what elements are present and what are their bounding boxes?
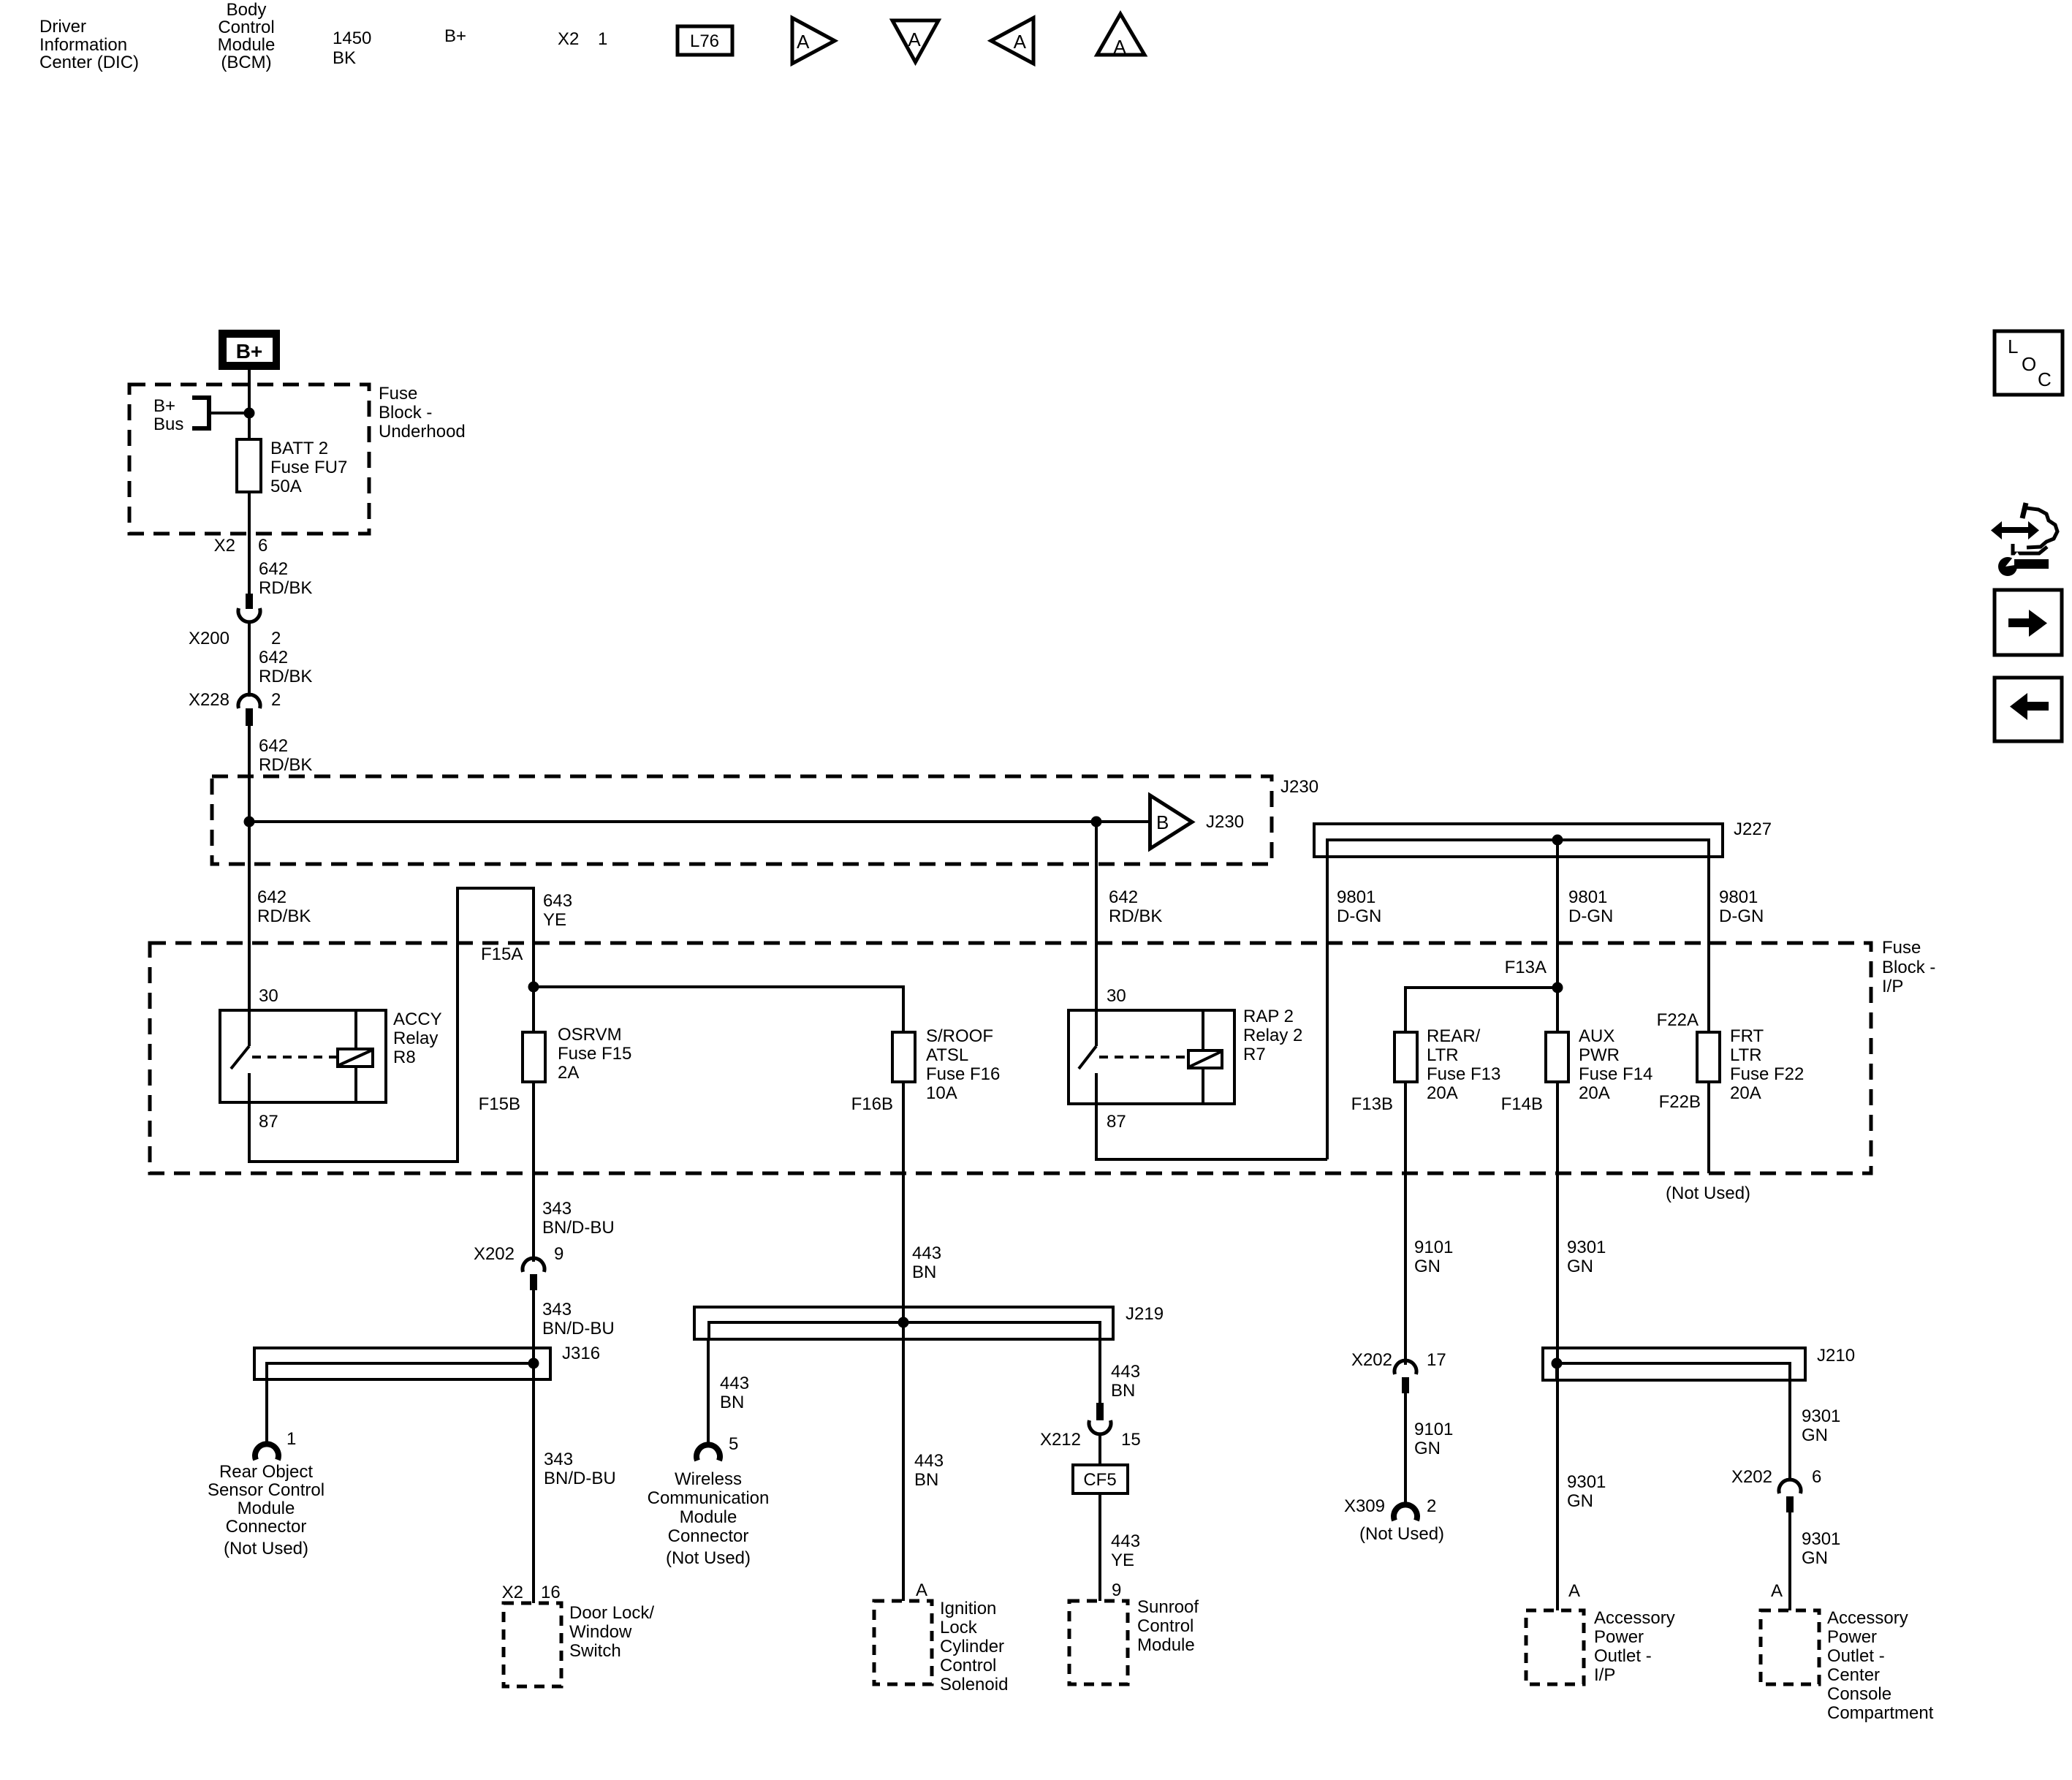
power symbol B+ — [219, 330, 280, 370]
svg-text:16: 16 — [541, 1583, 561, 1602]
label: Wireless Communication Module Connector (Not Used) — [648, 1469, 770, 1568]
legend arrow box right — [1995, 590, 2062, 655]
label: wire 9801 D-GN middle — [1568, 887, 1613, 926]
label: wire 642 RD/BK right — [1109, 887, 1162, 926]
wire F13B down 9101 GN — [1404, 1082, 1407, 1365]
wire relay R8 pin 87 to fuse F15 (643 YE) — [249, 888, 534, 1162]
svg-text:I/P: I/P — [1594, 1665, 1615, 1685]
fuse F14 AUX PWR 20A — [1546, 1032, 1568, 1082]
svg-text:X202: X202 — [1731, 1467, 1772, 1487]
svg-text:OSRVM: OSRVM — [558, 1025, 622, 1045]
svg-text:(Not Used): (Not Used) — [1666, 1183, 1750, 1203]
svg-text:9301: 9301 — [1802, 1406, 1840, 1426]
svg-text:Sunroof: Sunroof — [1137, 1597, 1199, 1617]
svg-text:9301: 9301 — [1567, 1238, 1606, 1257]
svg-text:642: 642 — [259, 559, 288, 579]
svg-text:GN: GN — [1414, 1257, 1441, 1276]
label: wire 443 BN above J219 — [912, 1243, 941, 1282]
legend arrow box left — [1995, 678, 2062, 741]
wire J210 right leg 9301 GN — [1788, 1380, 1791, 1480]
svg-text:Switch: Switch — [569, 1641, 621, 1661]
svg-text:Driver: Driver — [39, 17, 86, 37]
svg-text:J219: J219 — [1126, 1304, 1164, 1324]
wire F22B stub not used — [1707, 1082, 1710, 1173]
svg-text:Information: Information — [39, 35, 127, 55]
label: wire 9101 GN below X202-17 — [1414, 1420, 1453, 1458]
svg-text:Fuse: Fuse — [1882, 938, 1921, 958]
fuse F15 OSRVM 2A — [523, 1032, 545, 1082]
svg-text:RD/BK: RD/BK — [259, 667, 312, 686]
label: Fuse Block - I/P — [1882, 938, 1935, 996]
svg-text:Console: Console — [1827, 1684, 1891, 1704]
label: wire 343 BN/D-BU above X202 — [542, 1199, 615, 1238]
label: wire 642 RD/BK left — [257, 887, 311, 926]
svg-text:Lock: Lock — [940, 1618, 978, 1637]
svg-text:BN: BN — [914, 1470, 938, 1490]
fuse F22 FRT LTR 20A — [1697, 1032, 1720, 1082]
label: BATT 2 Fuse FU7 50A — [270, 439, 347, 496]
svg-text:Fuse F14: Fuse F14 — [1579, 1064, 1652, 1084]
svg-text:F13A: F13A — [1505, 958, 1547, 977]
svg-text:ATSL: ATSL — [926, 1045, 968, 1065]
junction node F15A — [528, 982, 539, 993]
svg-text:Rear Object: Rear Object — [219, 1462, 313, 1482]
svg-text:9: 9 — [1112, 1580, 1121, 1600]
label: wire 443 YE — [1111, 1531, 1140, 1570]
wire B+ to fuse FU7 — [248, 370, 251, 594]
svg-text:A: A — [908, 29, 921, 50]
svg-text:9801: 9801 — [1568, 887, 1607, 907]
svg-text:Module: Module — [680, 1507, 737, 1527]
connector X309 pin 2 (not used) — [1394, 1504, 1417, 1520]
label: wire 343 BN/D-BU below J316 — [544, 1450, 616, 1488]
svg-text:X202: X202 — [474, 1244, 515, 1264]
svg-text:Connector: Connector — [668, 1526, 749, 1546]
svg-text:J230: J230 — [1206, 812, 1244, 832]
label: wire 9801 D-GN right — [1719, 887, 1764, 926]
label: FRT LTR Fuse F22 20A — [1730, 1026, 1804, 1103]
wire J227 left leg from RAP relay output — [1326, 857, 1329, 1159]
label: wire 9301 GN above J210 — [1567, 1238, 1606, 1276]
svg-text:642: 642 — [1109, 887, 1138, 907]
wire relay R7 pin 87 to J227 — [1096, 1104, 1327, 1159]
LOC legend box — [1995, 331, 2062, 395]
svg-text:642: 642 — [257, 887, 286, 907]
svg-text:9101: 9101 — [1414, 1420, 1453, 1439]
wire X202-6 to outlet console 9301 GN — [1788, 1512, 1791, 1610]
svg-text:LTR: LTR — [1730, 1045, 1762, 1065]
inline connector X228 pin 2 — [238, 694, 260, 726]
Fuse Block - I/P dashed box — [150, 943, 1871, 1173]
svg-text:6: 6 — [258, 536, 267, 556]
label: wire 443 BN middle leg — [914, 1451, 944, 1490]
wire F14B down 9301 GN to J210 and outlet — [1556, 1082, 1559, 1610]
label: wire 642 RD/BK — [259, 559, 312, 598]
svg-text:9101: 9101 — [1414, 1238, 1453, 1257]
svg-text:1: 1 — [598, 29, 607, 49]
splice J230 dashed box — [212, 776, 1318, 864]
svg-text:GN: GN — [1802, 1425, 1828, 1445]
svg-text:Wireless: Wireless — [675, 1469, 742, 1489]
svg-text:GN: GN — [1414, 1439, 1441, 1458]
inline connector X202 pin 6 — [1779, 1480, 1801, 1512]
svg-text:J230: J230 — [1280, 777, 1318, 797]
svg-text:Fuse F13: Fuse F13 — [1427, 1064, 1500, 1084]
label: Accessory Power Outlet - Center Console Compartment — [1827, 1608, 1934, 1723]
svg-text:Block -: Block - — [379, 403, 432, 423]
splice pack J316 — [254, 1344, 600, 1379]
svg-text:RD/BK: RD/BK — [1109, 906, 1162, 926]
svg-text:RD/BK: RD/BK — [259, 755, 312, 775]
wire F16B down 443 BN to J219 and ignition solenoid — [902, 1082, 905, 1601]
svg-text:10A: 10A — [926, 1083, 957, 1103]
svg-text:A: A — [1113, 36, 1126, 58]
svg-text:20A: 20A — [1427, 1083, 1458, 1103]
module Accessory Power Outlet Center Console dashed box — [1761, 1610, 1819, 1684]
wire 642 RD/BK down to relay R8 — [248, 726, 251, 1010]
label: Accessory Power Outlet - I/P — [1594, 1608, 1675, 1685]
svg-text:YE: YE — [1111, 1550, 1134, 1570]
module Ignition Lock Cylinder Control Solenoid dashed box — [874, 1601, 932, 1684]
arrow symbol A left — [991, 18, 1033, 64]
svg-text:(BCM): (BCM) — [221, 53, 271, 72]
svg-text:Window: Window — [569, 1622, 632, 1642]
svg-text:Fuse: Fuse — [379, 384, 417, 404]
svg-text:A: A — [1568, 1581, 1580, 1601]
label: wire 9301 GN below J210 left — [1567, 1472, 1606, 1511]
svg-text:R7: R7 — [1243, 1045, 1266, 1064]
svg-text:F16B: F16B — [851, 1094, 893, 1114]
svg-text:R8: R8 — [393, 1048, 416, 1067]
svg-text:F15A: F15A — [481, 944, 523, 964]
svg-text:20A: 20A — [1730, 1083, 1761, 1103]
label: OSRVM Fuse F15 2A — [558, 1025, 631, 1083]
label: wire 343 BN/D-BU below X202 — [542, 1300, 615, 1338]
inline connector X212 pin 15 — [1089, 1403, 1111, 1434]
svg-text:Communication: Communication — [648, 1488, 770, 1508]
svg-text:BK: BK — [333, 48, 356, 68]
label: S/ROOF ATSL Fuse F16 10A — [926, 1026, 1000, 1103]
svg-text:J210: J210 — [1817, 1346, 1855, 1366]
svg-text:ACCY: ACCY — [393, 1010, 442, 1029]
svg-text:Center (DIC): Center (DIC) — [39, 53, 139, 72]
svg-text:1: 1 — [286, 1429, 296, 1449]
svg-text:9301: 9301 — [1567, 1472, 1606, 1492]
svg-text:A: A — [916, 1580, 927, 1600]
svg-text:15: 15 — [1121, 1430, 1141, 1450]
svg-text:30: 30 — [259, 986, 278, 1006]
svg-text:343: 343 — [542, 1199, 572, 1219]
svg-text:443: 443 — [720, 1374, 749, 1393]
svg-text:LTR: LTR — [1427, 1045, 1459, 1065]
pin label X2 16 — [502, 1583, 561, 1602]
svg-text:BN/D-BU: BN/D-BU — [542, 1218, 615, 1238]
svg-text:X228: X228 — [189, 690, 229, 710]
label: wire 9101 GN above X202-17 — [1414, 1238, 1453, 1276]
splice pack J227 — [1314, 819, 1772, 857]
svg-text:Module: Module — [238, 1499, 295, 1518]
svg-text:2A: 2A — [558, 1063, 579, 1083]
vehicle icon with double arrow and wrench — [1991, 503, 2057, 576]
label: AUX PWR Fuse F14 20A — [1579, 1026, 1652, 1103]
junction node J230 left — [244, 817, 255, 827]
svg-text:Sensor Control: Sensor Control — [208, 1480, 325, 1500]
svg-text:Fuse F15: Fuse F15 — [558, 1044, 631, 1064]
fuse FU7 BATT 2 50A — [237, 439, 261, 492]
junction node F13A — [1552, 982, 1563, 993]
off-page arrow B J230 — [1150, 795, 1245, 849]
wire 343 BN/D-BU to J316 and door lock switch — [532, 1290, 535, 1603]
svg-text:CF5: CF5 — [1083, 1470, 1116, 1490]
Fuse Block - Underhood dashed box — [129, 385, 369, 534]
splice pack J219 — [694, 1304, 1164, 1339]
svg-text:Accessory: Accessory — [1594, 1608, 1675, 1628]
svg-text:D-GN: D-GN — [1568, 906, 1613, 926]
svg-text:F14B: F14B — [1501, 1094, 1543, 1114]
node B+ Bus — [192, 398, 255, 428]
svg-text:87: 87 — [1107, 1112, 1126, 1132]
svg-text:FRT: FRT — [1730, 1026, 1764, 1046]
svg-text:1450: 1450 — [333, 29, 371, 48]
svg-text:X2: X2 — [558, 29, 579, 49]
svg-text:BATT 2: BATT 2 — [270, 439, 328, 458]
svg-text:D-GN: D-GN — [1337, 906, 1381, 926]
svg-text:D-GN: D-GN — [1719, 906, 1764, 926]
svg-text:Cylinder: Cylinder — [940, 1637, 1004, 1656]
svg-text:6: 6 — [1812, 1467, 1821, 1487]
svg-text:9: 9 — [554, 1244, 563, 1264]
label: REAR/LTR Fuse F13 20A — [1427, 1026, 1500, 1103]
svg-text:BN/D-BU: BN/D-BU — [544, 1469, 616, 1488]
svg-text:Accessory: Accessory — [1827, 1608, 1908, 1628]
wire J219 left leg to wireless module connector — [707, 1339, 710, 1446]
label: RAP 2 Relay 2 R7 — [1243, 1007, 1302, 1064]
wire 9801 D-GN middle leg — [1556, 840, 1559, 1032]
label: wire 9301 GN right leg lower — [1802, 1529, 1840, 1568]
svg-text:Fuse F16: Fuse F16 — [926, 1064, 1000, 1084]
svg-text:RD/BK: RD/BK — [259, 578, 312, 598]
svg-text:F13B: F13B — [1351, 1094, 1393, 1114]
component box CF5 — [1073, 1465, 1128, 1493]
fuse F16 S/ROOF ATSL 10A — [892, 1032, 915, 1082]
wire F13A branch to fuse F13 — [1405, 988, 1557, 1032]
svg-text:(Not Used): (Not Used) — [666, 1548, 751, 1568]
svg-text:J316: J316 — [562, 1344, 600, 1363]
wire 9801 D-GN right leg to F22 — [1707, 857, 1710, 1032]
wire J219 right leg 443 BN to X212 — [1098, 1339, 1101, 1404]
label: Rear Object Sensor Control Module Connector (Not Used) — [208, 1462, 325, 1559]
label: B+ Bus — [153, 396, 183, 434]
svg-text:PWR: PWR — [1579, 1045, 1620, 1065]
svg-text:X2: X2 — [214, 536, 235, 556]
svg-text:9801: 9801 — [1719, 887, 1758, 907]
svg-text:F22A: F22A — [1657, 1010, 1699, 1030]
label: wire 642 RD/BK — [259, 648, 312, 686]
svg-text:Module: Module — [1137, 1635, 1195, 1655]
svg-text:17: 17 — [1427, 1350, 1446, 1370]
svg-text:2: 2 — [271, 690, 281, 710]
label: Fuse Block - Underhood — [379, 384, 466, 442]
svg-text:B: B — [1156, 811, 1169, 833]
inline connector X202 pin 17 — [1394, 1360, 1416, 1393]
svg-text:343: 343 — [544, 1450, 573, 1469]
svg-text:BN: BN — [1111, 1381, 1135, 1401]
wire F15A branch to fuse F16 — [534, 987, 903, 1032]
svg-text:50A: 50A — [270, 477, 302, 496]
svg-text:Control: Control — [940, 1656, 996, 1675]
svg-text:343: 343 — [542, 1300, 572, 1319]
label: wire 9301 GN right leg upper — [1802, 1406, 1840, 1445]
label: Sunroof Control Module — [1137, 1597, 1199, 1655]
junction node J230 right — [1091, 817, 1102, 827]
inline connector X200 pin 2 — [238, 594, 260, 622]
svg-text:Outlet -: Outlet - — [1827, 1646, 1885, 1666]
svg-text:9801: 9801 — [1337, 887, 1375, 907]
label: wire 9801 D-GN left — [1337, 887, 1381, 926]
label: Ignition Lock Cylinder Control Solenoid — [940, 1599, 1008, 1694]
svg-text:A: A — [1014, 31, 1027, 53]
arrow symbol A up — [1097, 14, 1145, 58]
svg-text:RD/BK: RD/BK — [257, 906, 311, 926]
svg-text:L76: L76 — [690, 31, 719, 51]
svg-text:(Not Used): (Not Used) — [224, 1539, 308, 1559]
svg-text:GN: GN — [1802, 1548, 1828, 1568]
arrow symbol A right — [792, 18, 835, 64]
svg-text:I/P: I/P — [1882, 977, 1903, 996]
svg-text:Bus: Bus — [153, 414, 183, 434]
svg-text:B+: B+ — [153, 396, 175, 416]
label: connector X2 pin 1 — [558, 29, 607, 49]
svg-text:Relay 2: Relay 2 — [1243, 1026, 1302, 1045]
svg-text:Control: Control — [1137, 1616, 1194, 1636]
relay R8 ACCY Relay — [220, 1010, 386, 1102]
svg-text:30: 30 — [1107, 986, 1126, 1006]
svg-text:643: 643 — [543, 891, 572, 911]
svg-text:X200: X200 — [189, 629, 229, 648]
svg-text:BN: BN — [720, 1393, 744, 1412]
svg-text:X202: X202 — [1351, 1350, 1392, 1370]
svg-text:O: O — [2022, 353, 2036, 375]
svg-text:BN/D-BU: BN/D-BU — [542, 1319, 615, 1338]
svg-text:(Not Used): (Not Used) — [1359, 1524, 1444, 1544]
svg-text:F15B: F15B — [479, 1094, 520, 1114]
svg-text:GN: GN — [1567, 1491, 1593, 1511]
svg-text:Power: Power — [1594, 1627, 1644, 1647]
label: wire 1450 BK — [333, 29, 371, 68]
svg-text:B+: B+ — [236, 340, 263, 363]
svg-text:Block -: Block - — [1882, 958, 1935, 977]
svg-text:2: 2 — [1427, 1496, 1436, 1516]
svg-text:Fuse F22: Fuse F22 — [1730, 1064, 1804, 1084]
wire J230 to relay R7 pin 30 — [1095, 822, 1098, 1010]
svg-text:B+: B+ — [444, 26, 466, 46]
svg-text:Body: Body — [227, 0, 267, 20]
svg-text:87: 87 — [259, 1112, 278, 1132]
pin label X2 6 — [214, 536, 268, 556]
svg-text:X2: X2 — [502, 1583, 523, 1602]
svg-text:9301: 9301 — [1802, 1529, 1840, 1549]
inline connector X202 pin 9 — [523, 1258, 544, 1290]
svg-text:Control: Control — [218, 18, 274, 37]
svg-text:GN: GN — [1567, 1257, 1593, 1276]
svg-text:X309: X309 — [1344, 1496, 1385, 1516]
svg-text:443: 443 — [914, 1451, 944, 1471]
svg-text:Relay: Relay — [393, 1029, 438, 1048]
label: wire 643 YE — [543, 891, 572, 930]
wire CF5 to sunroof control module 443 YE — [1098, 1493, 1101, 1601]
component box L76 — [678, 26, 732, 55]
svg-text:REAR/: REAR/ — [1427, 1026, 1481, 1046]
svg-text:C: C — [2038, 368, 2052, 390]
label: wire 443 BN right leg — [1111, 1362, 1140, 1401]
wire X212 to CF5 — [1098, 1433, 1101, 1465]
module Sunroof Control Module dashed box — [1069, 1601, 1128, 1684]
relay R7 RAP 2 Relay 2 — [1069, 1010, 1234, 1104]
label: wire 642 RD/BK — [259, 736, 312, 775]
svg-text:AUX: AUX — [1579, 1026, 1614, 1046]
label: Body Control Module (BCM) — [218, 0, 276, 72]
svg-text:Underhood: Underhood — [379, 422, 466, 442]
svg-text:Fuse FU7: Fuse FU7 — [270, 458, 347, 477]
fuse F13 REAR/LTR 20A — [1394, 1032, 1417, 1082]
svg-text:Door Lock/: Door Lock/ — [569, 1603, 654, 1623]
svg-text:642: 642 — [259, 648, 288, 667]
svg-text:Module: Module — [218, 35, 276, 55]
svg-text:20A: 20A — [1579, 1083, 1610, 1103]
svg-text:Compartment: Compartment — [1827, 1703, 1934, 1723]
svg-text:X212: X212 — [1040, 1430, 1081, 1450]
svg-text:Outlet -: Outlet - — [1594, 1646, 1652, 1666]
svg-text:BN: BN — [912, 1262, 936, 1282]
label: Door Lock/Window Switch — [569, 1603, 654, 1661]
wire splice J230 horizontal — [249, 820, 1150, 823]
wire F15B down 343 BN/D-BU — [532, 1082, 535, 1262]
splice pack J210 — [1543, 1346, 1855, 1380]
svg-text:RAP 2: RAP 2 — [1243, 1007, 1294, 1026]
svg-text:Power: Power — [1827, 1627, 1877, 1647]
svg-text:J227: J227 — [1734, 819, 1772, 839]
svg-text:2: 2 — [271, 629, 281, 648]
label: wire 443 BN wireless leg — [720, 1374, 749, 1412]
module Door Lock/Window Switch dashed box — [504, 1603, 561, 1686]
label: Driver Information Center (DIC) — [39, 17, 139, 72]
svg-text:F22B: F22B — [1659, 1092, 1701, 1112]
svg-text:S/ROOF: S/ROOF — [926, 1026, 993, 1046]
svg-text:443: 443 — [1111, 1531, 1140, 1551]
svg-text:443: 443 — [912, 1243, 941, 1263]
arrow symbol A down — [892, 20, 938, 62]
svg-text:Solenoid: Solenoid — [940, 1675, 1008, 1694]
svg-text:YE: YE — [543, 910, 566, 930]
svg-text:L: L — [2008, 336, 2018, 357]
module Accessory Power Outlet I/P dashed box — [1526, 1610, 1584, 1684]
wire 642 RD/BK X200 to X228 — [248, 621, 251, 697]
svg-text:A: A — [1771, 1581, 1783, 1601]
wire 9101 GN X202-17 to X309 — [1404, 1393, 1407, 1505]
connector wireless communication module (not used) — [697, 1444, 720, 1461]
svg-text:Center: Center — [1827, 1665, 1880, 1685]
svg-text:642: 642 — [259, 736, 288, 756]
svg-text:Connector: Connector — [226, 1517, 307, 1537]
svg-text:Ignition: Ignition — [940, 1599, 996, 1618]
wire J316 left leg to rear object sensor connector — [265, 1363, 268, 1445]
connector rear object sensor (not used) — [255, 1444, 278, 1460]
label: ACCY Relay R8 — [393, 1010, 442, 1067]
svg-text:443: 443 — [1111, 1362, 1140, 1382]
svg-text:A: A — [797, 31, 810, 53]
svg-text:5: 5 — [729, 1434, 738, 1454]
